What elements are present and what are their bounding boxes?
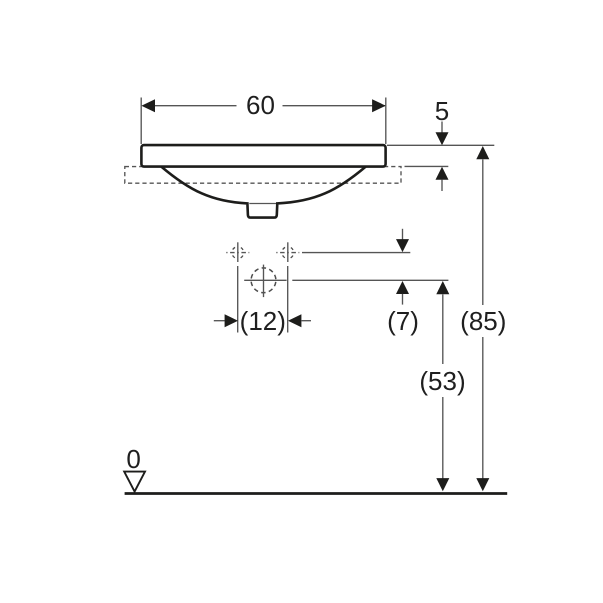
dim 5 lower arrowhead (up) [436,167,449,180]
svg-text:0: 0 [126,444,140,474]
dim (85) line lower segment [482,337,484,479]
floor line [125,492,508,495]
dim (7) upper arrowhead (down) [396,239,409,252]
basin rim [141,145,385,167]
drain hole dashed circle [251,268,276,293]
dim (85) top arrowhead (up) [476,146,489,159]
faucet hole cross left: vertical line [237,242,239,262]
svg-text:(12): (12) [240,306,286,336]
dim (7) lower arrow tail [402,294,404,305]
dimension line 60 right segment [283,105,386,107]
dim 5 upper arrow tail [441,122,443,135]
drain top thin line [249,203,276,205]
dim (53) top arrowhead (up) [436,281,449,294]
dim (12) extension line left [237,266,239,333]
faucet hole cross left: horizontal dash-dot [226,252,249,254]
arrowhead 60 right [372,99,386,112]
svg-text:(85): (85) [460,306,506,336]
faucet hole cross right: small dashed circle [282,247,294,259]
extension line at rim bottom level [405,165,449,167]
dim (85) line upper segment [482,159,484,305]
svg-text:(7): (7) [387,306,419,336]
dim (7) lower arrowhead (up) [396,281,409,294]
dim (12) left arrowhead [225,314,238,327]
drain level line to (53) arrow [292,279,448,281]
extension line left of dim 60 [140,98,142,145]
faucet level line to (7) arrow [302,252,410,254]
dim (53) bottom arrowhead (down) [436,478,449,491]
dim 5 upper arrowhead (down) [436,132,449,145]
faucet hole cross right: horizontal dash-dot [276,252,299,254]
drain hole cross vertical [263,265,265,298]
faucet hole cross left: small dashed circle [232,247,244,259]
faucet hole cross right: vertical line [287,242,289,262]
svg-text:(53): (53) [419,366,465,396]
extension line at rim top level [387,144,494,146]
dim (53) line lower segment [442,397,444,479]
dim 5 lower arrow tail [441,180,443,192]
dim (85) bottom arrowhead (down) [476,478,489,491]
countertop cutout dashed rectangle [125,167,401,184]
dim (53) line upper segment [442,294,444,364]
datum triangle [124,472,145,492]
basin bowl with drain [161,167,365,218]
dim (12) extension line right [287,266,289,333]
svg-text:60: 60 [246,90,275,120]
dim (12) right arrowhead [288,314,301,327]
dimension line 60 left segment [143,105,237,107]
dim (12) right arrow tail [301,320,311,322]
arrowhead 60 left [141,99,155,112]
dim (12) left arrow tail [214,320,225,322]
drain hole cross horizontal [244,279,286,281]
extension line right of dim 60 [385,98,387,145]
dim (7) upper arrow tail [402,229,404,241]
